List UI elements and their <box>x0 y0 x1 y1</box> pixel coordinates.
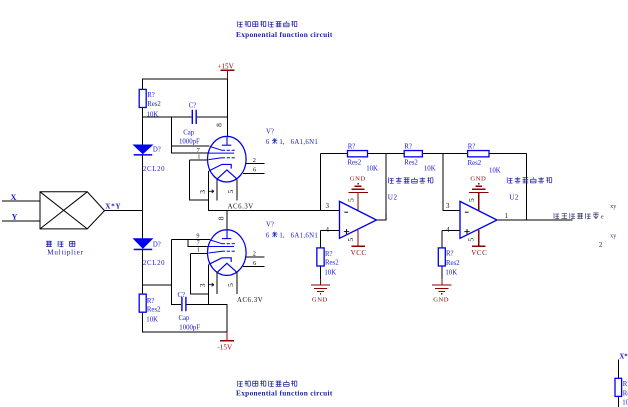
resistor R8 <box>615 378 622 396</box>
op-amp U2 second <box>460 201 497 238</box>
svg-text:-15V: -15V <box>217 343 233 351</box>
wire <box>441 230 443 248</box>
wire <box>443 210 460 212</box>
power VCC <box>478 230 480 246</box>
svg-text:3: 3 <box>446 202 450 210</box>
pin 1 wire <box>190 159 208 161</box>
svg-text:1: 1 <box>197 153 200 160</box>
svg-text:Cap: Cap <box>179 315 191 322</box>
resistor R6 <box>317 248 324 266</box>
wire <box>189 160 191 201</box>
svg-text:X*: X* <box>619 353 628 360</box>
svg-text:10K: 10K <box>324 270 336 277</box>
svg-text:Res2: Res2 <box>147 101 161 108</box>
wire <box>208 265 210 305</box>
svg-text:R?: R? <box>468 143 476 150</box>
svg-text:R?: R? <box>147 92 155 99</box>
svg-text:1: 1 <box>505 213 508 220</box>
svg-text:2CL20: 2CL20 <box>143 166 165 173</box>
capacitor C1 <box>191 110 193 124</box>
svg-text:5: 5 <box>467 198 476 202</box>
svg-text:R?: R? <box>325 251 333 258</box>
svg-text:1000pF: 1000pF <box>179 324 200 331</box>
wire <box>143 116 192 118</box>
svg-text:5: 5 <box>346 198 355 202</box>
resistor R5 <box>468 151 489 157</box>
wire <box>236 273 238 294</box>
svg-text:R?: R? <box>446 250 454 257</box>
pin 1 wire <box>191 252 208 254</box>
svg-text:10K: 10K <box>146 316 158 323</box>
svg-text:1000pF: 1000pF <box>179 138 200 145</box>
svg-text:1: 1 <box>385 213 388 220</box>
wire <box>142 250 144 294</box>
svg-text:Y: Y <box>12 212 18 221</box>
svg-text:Res2: Res2 <box>468 160 482 167</box>
wire <box>478 192 480 210</box>
title bottom <box>237 381 297 387</box>
svg-text:5: 5 <box>226 283 235 287</box>
svg-text:8: 8 <box>217 216 226 220</box>
title top <box>237 21 297 27</box>
svg-text:3: 3 <box>198 190 207 194</box>
wire <box>143 331 227 333</box>
svg-text:Res2: Res2 <box>147 307 161 314</box>
svg-text:5: 5 <box>226 190 235 194</box>
resistor R3 <box>348 151 368 157</box>
wire <box>216 273 218 294</box>
pin 7 wire <box>188 246 209 248</box>
svg-text:U2: U2 <box>388 193 398 201</box>
svg-text:Res2: Res2 <box>446 260 460 267</box>
svg-text:6: 6 <box>266 232 270 239</box>
svg-text:9: 9 <box>196 233 199 240</box>
diode D2 <box>134 239 153 249</box>
pin 2 <box>246 256 265 258</box>
wire <box>170 239 172 305</box>
svg-text:Res2: Res2 <box>348 159 362 166</box>
wire <box>197 116 228 118</box>
pin 7 wire <box>171 152 209 154</box>
svg-text:Res2: Res2 <box>325 260 339 267</box>
wire <box>320 154 322 211</box>
svg-text:5: 5 <box>466 238 475 242</box>
wire <box>142 79 144 90</box>
svg-text:6: 6 <box>266 139 270 146</box>
wire <box>618 396 620 407</box>
svg-text:D?: D? <box>153 146 161 153</box>
wire <box>216 179 218 200</box>
svg-text:Multiplier: Multiplier <box>47 248 83 256</box>
wire <box>2 200 40 202</box>
svg-text:GND: GND <box>312 297 328 304</box>
svg-text:6: 6 <box>253 167 257 174</box>
wire <box>357 192 359 210</box>
svg-text:8: 8 <box>214 123 223 127</box>
svg-text:U2: U2 <box>509 193 519 201</box>
svg-text:X: X <box>11 193 17 202</box>
svg-text:V?: V? <box>266 128 274 135</box>
svg-text:6A1,6N1: 6A1,6N1 <box>291 139 319 146</box>
wire <box>320 266 322 285</box>
wire <box>618 360 620 379</box>
resistor R4 <box>404 151 422 157</box>
wire <box>321 153 348 155</box>
svg-text:R?: R? <box>404 144 412 151</box>
wire <box>227 79 229 136</box>
wire <box>386 153 404 155</box>
wire <box>376 219 386 221</box>
svg-text:6A1,6N1: 6A1,6N1 <box>291 232 319 239</box>
wire <box>142 156 144 239</box>
svg-text:R?: R? <box>147 298 155 305</box>
svg-text:+15V: +15V <box>217 63 234 71</box>
pin 6 <box>243 266 265 268</box>
power VCC <box>357 230 359 246</box>
op-amp label <box>507 177 552 183</box>
wire <box>368 153 386 155</box>
svg-text:10K: 10K <box>489 167 501 174</box>
ground <box>441 278 443 285</box>
wire <box>385 154 387 221</box>
wire <box>142 312 144 332</box>
pin 9 wire <box>171 145 209 147</box>
wire <box>526 154 528 221</box>
svg-text:Cap: Cap <box>183 129 195 136</box>
wire <box>442 229 460 231</box>
pin 6 <box>243 172 265 174</box>
pin 2 <box>246 163 265 165</box>
wire <box>422 153 443 155</box>
svg-text:GND: GND <box>350 176 366 183</box>
svg-text:GND: GND <box>433 297 449 304</box>
svg-text:2: 2 <box>253 157 256 164</box>
svg-text:3: 3 <box>198 283 207 287</box>
power -15V <box>226 332 228 341</box>
svg-text:6: 6 <box>253 260 257 267</box>
svg-text:4: 4 <box>326 226 330 234</box>
wire <box>442 154 444 211</box>
wire <box>191 293 210 295</box>
wire <box>143 78 228 80</box>
svg-text:Res2: Res2 <box>404 159 418 166</box>
svg-text:2: 2 <box>599 240 603 249</box>
wire <box>236 179 238 200</box>
svg-text:5: 5 <box>346 238 355 242</box>
svg-text:3: 3 <box>326 202 330 210</box>
svg-text:1: 1 <box>197 247 200 254</box>
resistor R1 <box>139 89 146 107</box>
wire <box>443 153 468 155</box>
svg-text:xy: xy <box>610 203 617 210</box>
wire <box>143 284 172 286</box>
resistor R2 <box>139 294 146 312</box>
wire <box>226 304 228 332</box>
svg-text:10K: 10K <box>147 111 159 118</box>
svg-text:10K: 10K <box>424 165 436 172</box>
svg-text:2CL20: 2CL20 <box>143 260 165 267</box>
wire <box>441 266 443 285</box>
svg-text:10K: 10K <box>366 165 378 172</box>
wire <box>170 117 172 154</box>
wire <box>187 303 228 305</box>
svg-text:4: 4 <box>446 226 450 234</box>
svg-text:10K: 10K <box>622 400 628 407</box>
svg-text:Exponential function circuit: Exponential function circuit <box>236 389 333 398</box>
output result label <box>554 213 599 219</box>
svg-text:R?: R? <box>623 381 628 388</box>
svg-text:7: 7 <box>197 240 200 247</box>
wire <box>497 219 572 221</box>
op-amp U2 first <box>340 201 377 238</box>
svg-text:10K: 10K <box>445 269 457 276</box>
wire <box>208 210 339 212</box>
wire <box>321 229 340 231</box>
capacitor C2 <box>181 297 183 311</box>
wire <box>142 108 144 146</box>
multiplier U? <box>40 192 105 229</box>
svg-text:R?: R? <box>348 144 356 151</box>
power +15V <box>227 70 229 79</box>
node X*Y wire <box>105 210 144 212</box>
ground <box>320 278 322 285</box>
wire <box>226 211 228 230</box>
wire <box>187 239 189 247</box>
multiplier label <box>46 241 75 247</box>
svg-text:Exponential function circuit: Exponential function circuit <box>236 30 333 39</box>
wire <box>207 171 209 211</box>
wire <box>489 153 527 155</box>
svg-text:2: 2 <box>253 251 256 258</box>
svg-text:C?: C? <box>189 102 197 109</box>
op-amp label <box>388 177 433 183</box>
svg-text:D?: D? <box>153 241 161 248</box>
svg-text:GND: GND <box>470 176 486 183</box>
svg-text:AC6.3V: AC6.3V <box>228 203 254 210</box>
pin 9 wire <box>171 238 210 240</box>
svg-text:V?: V? <box>266 222 274 229</box>
svg-text:e: e <box>601 213 604 220</box>
wire <box>171 303 181 305</box>
svg-text:AC6.3V: AC6.3V <box>237 297 263 304</box>
svg-text:1,: 1, <box>279 139 284 146</box>
wire <box>190 253 192 294</box>
resistor R7 <box>438 248 445 266</box>
vacuum tube V2 lower <box>208 230 247 276</box>
svg-text:xy: xy <box>610 232 617 239</box>
wire <box>2 220 40 222</box>
svg-text:VCC: VCC <box>471 249 487 257</box>
svg-text:X*Y: X*Y <box>105 202 121 210</box>
wire <box>190 199 209 201</box>
diode D1 <box>134 145 153 154</box>
svg-text:VCC: VCC <box>351 249 367 257</box>
svg-text:Res2: Res2 <box>623 390 628 397</box>
vacuum tube V1 upper <box>208 136 247 182</box>
svg-text:C?: C? <box>178 292 186 299</box>
svg-text:1,: 1, <box>279 232 284 239</box>
wire <box>320 230 322 248</box>
